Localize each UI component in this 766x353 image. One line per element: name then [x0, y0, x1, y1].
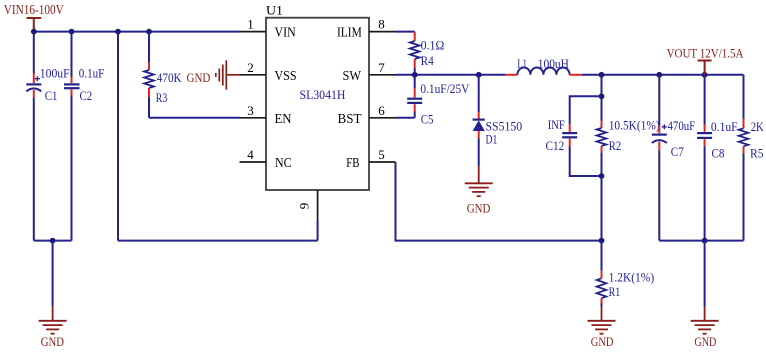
svg-text:SL3041H: SL3041H: [300, 87, 346, 102]
wire pin 9 to pad net: [317, 220, 319, 241]
svg-text:0.1uF: 0.1uF: [79, 65, 105, 80]
resistor R1: [597, 241, 607, 306]
wire R2 bottom to FB net: [601, 176, 603, 241]
wire ILIM to R4: [396, 31, 415, 33]
wire pad branch horizontal: [118, 240, 318, 242]
svg-text:VIN: VIN: [275, 25, 296, 40]
junction at C2 top: [69, 29, 75, 35]
svg-text:100uH: 100uH: [538, 56, 569, 71]
resistor R4: [410, 32, 420, 75]
resistor R2: [597, 121, 607, 177]
junction at pad branch: [115, 29, 121, 35]
svg-text:100uF: 100uF: [40, 65, 70, 80]
svg-text:GND: GND: [591, 334, 614, 349]
wire C8 ground stem: [704, 241, 706, 306]
svg-text:0.1Ω: 0.1Ω: [421, 38, 445, 53]
junction VOUT at C8: [702, 72, 708, 78]
svg-text:C5: C5: [421, 112, 434, 127]
wire ground stem left: [52, 241, 54, 306]
svg-text:7: 7: [378, 60, 385, 75]
wire R2 branch upper: [601, 75, 603, 121]
svg-text:GND: GND: [694, 334, 716, 349]
svg-text:SW: SW: [343, 68, 362, 83]
wire VIN top rail: [34, 31, 240, 33]
junction R2 bottom: [599, 173, 605, 179]
capacitor C1: [26, 32, 41, 241]
svg-text:VOUT 12V/1.5A: VOUT 12V/1.5A: [667, 45, 744, 60]
svg-text:R4: R4: [421, 53, 435, 68]
wire SW node: [396, 74, 506, 76]
junction at C1 top: [31, 29, 37, 35]
wire pad branch vertical: [117, 32, 119, 241]
power flag VOUT: [698, 61, 712, 75]
svg-text:VSS: VSS: [275, 68, 297, 83]
capacitor C2: [64, 32, 80, 241]
junction at ground stem: [50, 238, 56, 244]
junction SW at R4/C5: [412, 72, 418, 78]
svg-text:FB: FB: [346, 155, 359, 170]
pin 1 VIN: [240, 17, 296, 40]
wire FB net: [396, 162, 602, 241]
svg-text:C1: C1: [45, 88, 58, 103]
power flag VIN: [27, 18, 42, 32]
pin 4 NC: [240, 147, 292, 170]
wire C12 top: [570, 96, 602, 124]
diode D1: [473, 75, 485, 166]
pin 3 EN: [240, 103, 292, 126]
svg-text:470uF: 470uF: [668, 118, 696, 133]
pin 5 FB: [346, 147, 395, 170]
svg-text:0.1uF/25V: 0.1uF/25V: [420, 81, 470, 96]
wire BST to C5: [396, 117, 415, 119]
pin 7 SW: [343, 60, 396, 83]
capacitor C8: [697, 75, 712, 241]
capacitor C12: [562, 124, 577, 147]
svg-text:1: 1: [247, 17, 254, 32]
svg-text:GND: GND: [41, 334, 64, 349]
resistor R3: [144, 32, 154, 118]
capacitor C7: [652, 75, 667, 241]
svg-text:U1: U1: [266, 3, 283, 18]
svg-text:0.1uF: 0.1uF: [711, 119, 738, 134]
junction SW at D1: [476, 72, 482, 78]
svg-text:C8: C8: [712, 146, 725, 161]
capacitor C5: [407, 75, 422, 118]
pin 2 VSS: [240, 60, 297, 83]
svg-text:10.5K(1%): 10.5K(1%): [609, 118, 660, 133]
junction C12 top: [599, 93, 605, 99]
junction FB at R1: [599, 238, 605, 244]
svg-text:6: 6: [378, 103, 385, 118]
svg-text:D1: D1: [486, 132, 498, 147]
svg-text:1.2K(1%): 1.2K(1%): [609, 270, 655, 285]
svg-text:VIN16-100V: VIN16-100V: [4, 2, 64, 17]
svg-text:2K: 2K: [751, 119, 764, 134]
svg-text:R2: R2: [609, 138, 621, 153]
ground symbol at D1: [465, 166, 493, 196]
svg-text:NC: NC: [275, 155, 292, 170]
svg-text:470K: 470K: [157, 70, 182, 85]
svg-text:GND: GND: [467, 200, 491, 215]
svg-text:INF: INF: [548, 117, 565, 132]
junction at C8 bottom: [702, 238, 708, 244]
svg-text:BST: BST: [338, 111, 363, 126]
ground symbol at VSS (sideways): [216, 60, 240, 89]
svg-text:ILIM: ILIM: [337, 25, 362, 40]
wire VOUT rail: [582, 74, 744, 76]
pin 9 pad: [297, 190, 318, 220]
wire output ground bus: [659, 240, 743, 242]
svg-text:R5: R5: [750, 146, 764, 161]
svg-text:3: 3: [247, 103, 254, 118]
ground symbol right: [691, 306, 719, 334]
svg-text:R1: R1: [609, 284, 621, 299]
junction VOUT at R2 branch: [599, 72, 605, 78]
svg-text:2: 2: [247, 60, 254, 75]
ground symbol at R1: [588, 306, 616, 334]
resistor R5: [739, 75, 749, 241]
svg-text:C12: C12: [546, 138, 565, 153]
pin 8 ILIM: [337, 17, 396, 40]
wire C1-C2 bottom: [34, 240, 72, 242]
svg-text:C7: C7: [671, 144, 684, 159]
pin 6 BST: [338, 103, 396, 126]
svg-text:9: 9: [297, 203, 312, 210]
svg-text:L1: L1: [517, 56, 527, 71]
svg-text:GND: GND: [187, 70, 211, 85]
wire EN to R3: [149, 117, 240, 119]
junction at R3 top: [146, 29, 152, 35]
wire C12 bottom: [570, 147, 602, 177]
junction VOUT at C7: [656, 72, 662, 78]
svg-text:8: 8: [378, 17, 385, 32]
inductor L1: [505, 68, 582, 75]
svg-text:4: 4: [247, 147, 254, 162]
ground symbol left: [39, 306, 67, 334]
svg-text:5: 5: [378, 147, 385, 162]
svg-text:R3: R3: [156, 90, 168, 105]
svg-text:C2: C2: [80, 88, 93, 103]
svg-text:EN: EN: [275, 111, 292, 126]
IC U1 SL3041H regulator body: [266, 18, 369, 190]
